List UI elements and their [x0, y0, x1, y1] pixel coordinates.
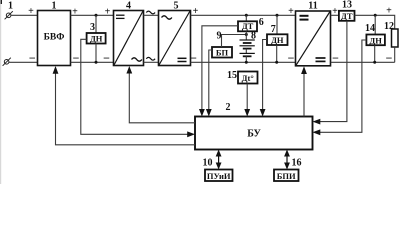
- svg-text:−: −: [73, 51, 80, 65]
- wire BP9 output to BU top: [209, 50, 212, 111]
- arrowhead into BU right (from DN14): [313, 129, 321, 135]
- arrowhead into BU left (from DN3): [187, 131, 195, 137]
- arrowhead into BVF bottom: [53, 66, 59, 74]
- node battery bottom junction: [245, 61, 248, 64]
- svg-text:3: 3: [90, 22, 95, 33]
- svg-text:−: −: [103, 51, 110, 65]
- wire DT6 output to BU top: [202, 26, 238, 111]
- svg-text:14: 14: [365, 23, 375, 34]
- current sensor DT6 box: [238, 21, 257, 31]
- wire DN14 bottom to bottom bus: [374, 45, 376, 62]
- svg-text:10: 10: [203, 158, 213, 169]
- svg-text:11: 11: [308, 1, 317, 12]
- svg-text:БВФ: БВФ: [44, 32, 65, 42]
- wire BU to block4 (control): [129, 72, 195, 123]
- wire DN3 bottom to bottom bus: [95, 44, 97, 63]
- wire bottom bus: terminal to block1: [9, 61, 38, 63]
- current sensor DT13 box: [339, 11, 355, 21]
- wire top bus: block1 to block4: [71, 14, 114, 16]
- wire bottom bus: block11 to resistor 12: [331, 61, 395, 63]
- node DN7 bottom junction: [275, 61, 278, 64]
- node tap top for DN7: [276, 14, 279, 35]
- node BP junction on battery line: [245, 33, 248, 36]
- svg-text:Дt°: Дt°: [242, 73, 254, 83]
- svg-text:ДТ: ДТ: [341, 11, 353, 21]
- svg-text:ДН: ДН: [90, 34, 103, 44]
- terminal input bottom: [3, 58, 11, 66]
- wire top bus: block11 to DT13: [331, 14, 339, 16]
- svg-text:БП: БП: [216, 48, 229, 58]
- load resistor 12: [392, 29, 399, 62]
- wire BU to BVF (control): [56, 73, 196, 145]
- wire DN14 output to BU right: [319, 40, 367, 132]
- power supply BP9 box: [212, 47, 232, 58]
- svg-text:16: 16: [292, 158, 302, 169]
- svg-text:7: 7: [271, 24, 276, 35]
- temperature sensor Dt15 box: [238, 72, 258, 84]
- node tap top for DN3: [95, 14, 98, 33]
- arrowhead into BU right (from DT13): [313, 119, 321, 125]
- tilde label bottom: [146, 57, 155, 60]
- wire top bus: block4 to block5: [144, 14, 159, 16]
- control panel PUiI box: [205, 170, 233, 182]
- voltage sensor DN7 box: [267, 34, 288, 45]
- terminal input top: [5, 11, 13, 19]
- rectifier block 5 (AC-DC) box: [159, 11, 191, 66]
- svg-text:+: +: [332, 6, 338, 17]
- wire DN7 bottom to bottom bus: [276, 45, 278, 62]
- arrowhead into BU top (from DN7): [260, 109, 266, 117]
- svg-text:1: 1: [52, 1, 57, 12]
- svg-text:+: +: [28, 6, 34, 17]
- voltage sensor DN3 box: [87, 33, 106, 44]
- node DN14 bottom junction: [373, 61, 376, 64]
- svg-text:ДН: ДН: [271, 35, 284, 45]
- wire top bus: DT13 to resistor 12: [355, 15, 395, 29]
- svg-text:−: −: [288, 51, 295, 65]
- svg-text:ДН: ДН: [369, 35, 382, 45]
- double arrow BU-BPI: [284, 150, 290, 170]
- arrowhead into block4 bottom: [126, 66, 132, 74]
- svg-text:+: +: [386, 6, 392, 17]
- svg-text:ПУиИ: ПУиИ: [207, 171, 231, 181]
- svg-text:−: −: [190, 51, 197, 65]
- svg-text:+: +: [72, 6, 78, 17]
- wire BP9 top to battery line: [222, 35, 247, 48]
- wire top bus: terminal to block1: [11, 14, 38, 16]
- svg-text:15: 15: [227, 70, 237, 81]
- wire Dt15 to BU top: [246, 84, 248, 111]
- svg-text:+: +: [288, 6, 294, 17]
- voltage sensor DN14 box: [366, 35, 385, 46]
- converter block 4 (DC-AC) box: [114, 11, 144, 66]
- svg-text:1: 1: [8, 1, 13, 12]
- double arrow BU-PUiI: [216, 150, 222, 170]
- battery GB8: [240, 31, 255, 62]
- svg-text:+: +: [193, 6, 199, 17]
- interface block BPI box: [274, 170, 299, 182]
- node tap top for DT6: [245, 14, 248, 21]
- svg-text:−: −: [386, 51, 393, 65]
- wire DT13 output to BU right: [319, 21, 347, 122]
- svg-text:−: −: [29, 51, 36, 65]
- arrowhead into BU top (from BP9): [206, 109, 212, 117]
- wire DN3 output to BU: [81, 39, 189, 134]
- wire BU to block11 (control): [303, 73, 305, 117]
- wire top bus: block5 to block11: [191, 14, 296, 16]
- node DN3 bottom junction: [95, 61, 98, 64]
- wire bottom bus: block5 to block11: [191, 61, 296, 63]
- svg-text:БУ: БУ: [247, 128, 261, 139]
- svg-text:6: 6: [259, 17, 264, 28]
- block 1 BVF box: [38, 11, 71, 66]
- arrowhead into BU top (from Dt15): [244, 109, 250, 117]
- svg-text:+: +: [105, 6, 111, 17]
- svg-text:БПИ: БПИ: [277, 171, 296, 181]
- wire bottom bus: block1 to block4: [71, 61, 114, 63]
- svg-text:9: 9: [217, 31, 222, 42]
- control unit BU2 box: [195, 117, 313, 150]
- arrowhead into block11 bottom: [301, 66, 307, 74]
- scan left border: [0, 0, 2, 184]
- svg-text:5: 5: [174, 1, 179, 12]
- arrowhead into BU top (from DT6): [199, 109, 205, 117]
- svg-text:2: 2: [226, 102, 231, 113]
- node tap top for DN14: [374, 14, 377, 35]
- wire DN7 output to BU top: [263, 40, 267, 111]
- svg-text:4: 4: [126, 1, 131, 12]
- svg-text:−: −: [332, 51, 339, 65]
- svg-text:13: 13: [342, 0, 352, 11]
- tilde label top: [146, 11, 155, 14]
- wire bottom bus: block4 to block5: [144, 61, 159, 63]
- converter block 11 (DC-DC) box: [296, 11, 331, 66]
